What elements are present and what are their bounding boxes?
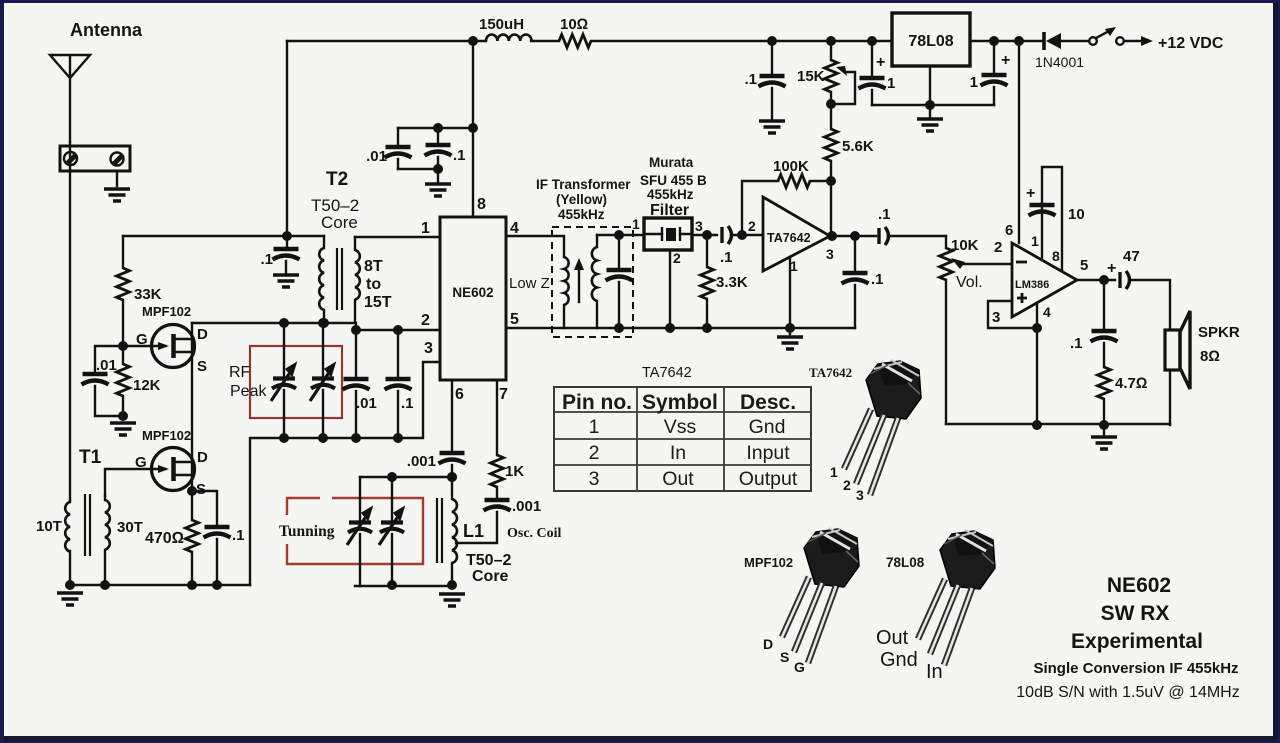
node junction at x287 [282, 231, 292, 241]
wire bypass bottom bus [398, 168, 438, 170]
wire antenna line down left side [69, 142, 71, 500]
resistor 100K [778, 175, 810, 188]
svg-text:L1: L1 [463, 521, 484, 541]
svg-text:10T: 10T [36, 518, 62, 535]
wire down to vol pot [945, 236, 947, 248]
ground bottom left [57, 593, 83, 605]
wire pin8 drop [472, 41, 474, 217]
node RF peak caps top [279, 318, 289, 328]
svg-text:6: 6 [455, 386, 464, 403]
svg-text:3: 3 [826, 246, 834, 262]
resistor 5.6K [825, 129, 838, 161]
svg-text:Symbol: Symbol [642, 391, 718, 414]
wire Q2 gate to T1 [105, 469, 165, 496]
capacitor .1 at Q2 source [192, 491, 217, 526]
node 12K bottom [118, 411, 128, 421]
svg-text:+: + [1026, 185, 1035, 202]
capacitor .1 rail [771, 41, 773, 74]
svg-text:D: D [197, 326, 208, 343]
svg-text:MPF102: MPF102 [142, 428, 191, 443]
wire output to .1 cap [1103, 280, 1105, 329]
switch [1089, 37, 1097, 45]
wire rail drop x287 [286, 41, 288, 236]
svg-text:Vol.: Vol. [956, 274, 983, 291]
resistor R 33K [122, 236, 124, 268]
svg-text:10dB S/N with 1.5uV @ 14MHz: 10dB S/N with 1.5uV @ 14MHz [1016, 684, 1239, 701]
svg-text:5: 5 [1080, 257, 1088, 274]
svg-text:3.3K: 3.3K [716, 274, 748, 291]
filter element [644, 233, 692, 235]
svg-text:SFU 455 B: SFU 455 B [640, 173, 707, 188]
svg-text:Experimental: Experimental [1071, 630, 1203, 653]
terminal block [60, 146, 130, 171]
svg-text:Desc.: Desc. [740, 391, 796, 414]
transformer T1 10T winding [69, 500, 71, 502]
svg-text:+: + [876, 54, 885, 71]
node rail x473 [468, 36, 478, 46]
wire pin4 to primary [506, 236, 564, 257]
wire Q1 drain line y=323 [192, 323, 440, 330]
svg-text:Output: Output [739, 468, 798, 490]
svg-text:Input: Input [746, 442, 790, 464]
svg-text:TA7642: TA7642 [809, 365, 852, 380]
node L1 bottom / ground [447, 580, 457, 590]
IC NE602 box [440, 217, 506, 380]
potentiometer 15K [830, 41, 832, 60]
svg-text:3: 3 [695, 218, 703, 234]
svg-text:4: 4 [1043, 304, 1051, 320]
svg-text:Peak: Peak [230, 383, 267, 400]
transformer T1 30T winding [104, 496, 106, 500]
svg-text:2: 2 [994, 239, 1002, 256]
regulator 78L08 box [892, 13, 970, 66]
svg-text:2: 2 [748, 218, 756, 234]
wire pin3 bottom line [250, 362, 440, 585]
svg-text:NE602: NE602 [452, 285, 493, 300]
svg-text:T50–2: T50–2 [466, 552, 511, 569]
svg-text:.001: .001 [512, 498, 541, 515]
svg-text:2: 2 [673, 250, 681, 266]
svg-text:.1: .1 [744, 71, 757, 88]
wire filter pin2 down [669, 250, 671, 328]
transformer T1 core [85, 494, 90, 556]
svg-text:Low Z: Low Z [509, 275, 550, 292]
svg-text:S: S [780, 649, 789, 665]
filter box [644, 218, 692, 250]
capacitor .01 below pin2 line [355, 330, 357, 377]
svg-text:G: G [794, 659, 805, 675]
node gate Q1 [118, 341, 128, 351]
wire T2 secondary to NE602 pin1 [355, 236, 440, 238]
wire tuning caps top line [360, 476, 452, 478]
wire 33K top line to T2 [123, 235, 324, 237]
capacitor .01 bypass [397, 128, 399, 145]
wire filter out [692, 234, 717, 236]
svg-text:.1: .1 [1070, 335, 1083, 352]
node T1 bottom [65, 580, 75, 590]
ground below 12K [110, 423, 136, 435]
svg-text:D: D [197, 449, 208, 466]
svg-text:to: to [366, 276, 381, 293]
amplifier LM386 triangle [1012, 243, 1077, 317]
L1 core [437, 498, 442, 563]
svg-text:150uH: 150uH [479, 16, 524, 33]
svg-text:Single Conversion IF 455kHz: Single Conversion IF 455kHz [1033, 660, 1238, 677]
transformer T2 left winding [323, 236, 325, 248]
svg-text:SPKR: SPKR [1198, 324, 1240, 341]
svg-text:2: 2 [843, 477, 851, 493]
svg-text:5: 5 [510, 311, 519, 328]
svg-text:.01: .01 [96, 357, 117, 374]
variable capacitor tuning 1 [359, 477, 361, 520]
transistor photo MPF102 [782, 528, 859, 663]
svg-text:78L08: 78L08 [886, 555, 925, 570]
svg-text:10K: 10K [951, 237, 979, 254]
svg-text:7: 7 [499, 386, 508, 403]
svg-text:In: In [670, 442, 686, 464]
svg-text:Out: Out [662, 468, 694, 490]
potentiometer 10K [940, 248, 953, 280]
svg-text:Vss: Vss [664, 416, 697, 438]
ground below terminal [104, 189, 130, 201]
variable capacitor RF peak 2 [322, 323, 324, 376]
svg-text:Out: Out [876, 627, 909, 649]
svg-text:3: 3 [856, 487, 864, 503]
svg-text:2: 2 [589, 442, 600, 464]
diode 1N4001 [1042, 32, 1046, 50]
wire feedback loop [742, 181, 778, 235]
resistor 4.7 ohm [1098, 367, 1111, 399]
svg-text:1: 1 [589, 416, 600, 438]
wire to +12VDC arrow [1125, 40, 1146, 42]
svg-text:S: S [197, 358, 207, 375]
pins 1,8 loop + cap 10uF [1042, 167, 1062, 271]
wire LM386 pin6 drop [1018, 41, 1020, 243]
svg-text:470Ω: 470Ω [145, 530, 184, 547]
svg-text:Tunning: Tunning [279, 523, 335, 540]
capacitor .1 bypass [437, 128, 439, 143]
svg-text:Murata: Murata [649, 155, 694, 170]
capacitor 1uF output [993, 41, 995, 73]
svg-text:1: 1 [421, 220, 430, 237]
node rail x1019 [1014, 36, 1024, 46]
capacitor .01 branch [95, 346, 123, 372]
svg-text:(Yellow): (Yellow) [556, 192, 607, 207]
svg-text:NE602: NE602 [1107, 574, 1171, 597]
svg-text:1N4001: 1N4001 [1035, 54, 1084, 70]
svg-text:.1: .1 [720, 249, 733, 266]
wire bottom rail LM386 [946, 423, 1170, 425]
svg-text:10: 10 [1068, 206, 1085, 223]
IF arrow [578, 265, 580, 302]
wire caps ground bus [872, 104, 994, 106]
svg-text:RF: RF [229, 364, 251, 381]
transformer T2 right winding 8T-15T [354, 237, 356, 250]
svg-text:8T: 8T [364, 258, 383, 275]
svg-text:+12 VDC: +12 VDC [1158, 35, 1224, 52]
transistor photo TA7642 [844, 360, 921, 495]
svg-text:1: 1 [1031, 233, 1039, 249]
svg-text:1: 1 [970, 74, 978, 91]
svg-text:T1: T1 [79, 447, 102, 468]
svg-text:.1: .1 [871, 271, 884, 288]
svg-text:15T: 15T [364, 294, 392, 311]
svg-text:.01: .01 [366, 148, 387, 165]
svg-text:1: 1 [830, 464, 838, 480]
svg-text:4: 4 [510, 220, 519, 237]
svg-text:G: G [136, 331, 148, 348]
svg-text:TA7642: TA7642 [642, 365, 692, 381]
wire rail middle [591, 40, 892, 42]
svg-text:.1: .1 [232, 527, 245, 544]
resistor 3.3K [706, 235, 708, 267]
svg-text:D: D [763, 636, 773, 652]
svg-text:Pin no.: Pin no. [562, 391, 632, 414]
wire long vertical drain-source line [191, 323, 193, 585]
10K wiper arrow [963, 263, 1012, 265]
amplifier TA7642 triangle [763, 197, 830, 271]
wire between L and R [531, 40, 559, 42]
wire TA7642 pin1 to gnd [789, 257, 791, 328]
node 3.3K top [702, 230, 712, 240]
node rail x872 [867, 36, 877, 46]
svg-text:S: S [196, 481, 206, 498]
wire 78L08 gnd pin [929, 66, 931, 105]
svg-text:100K: 100K [773, 158, 809, 175]
speaker [1165, 330, 1180, 370]
tunning red box [287, 498, 423, 564]
svg-text:47: 47 [1123, 248, 1140, 265]
svg-text:15K: 15K [797, 68, 825, 85]
capacitor .1 coupling to TA7642 [722, 226, 732, 244]
svg-text:.1: .1 [260, 251, 273, 268]
ground bypass [425, 184, 451, 196]
svg-text:In: In [926, 661, 943, 683]
capacitor .1 coupling to vol [879, 227, 889, 245]
transformer T2 core [337, 248, 342, 310]
svg-text:3: 3 [589, 468, 600, 490]
svg-text:8: 8 [477, 196, 486, 213]
pin3 box [988, 301, 1037, 328]
resistor 1K [491, 455, 504, 487]
variable capacitor tuning 2 [391, 477, 393, 520]
svg-text:MPF102: MPF102 [744, 555, 793, 570]
wire secondary top to filter [597, 234, 644, 236]
svg-text:Antenna: Antenna [70, 20, 143, 40]
capacitor .1 shunt at output [854, 236, 856, 271]
svg-text:8Ω: 8Ω [1200, 348, 1220, 365]
svg-text:5.6K: 5.6K [842, 138, 874, 155]
svg-text:TA7642: TA7642 [767, 231, 811, 245]
capacitor .1 below pin2 line [397, 330, 399, 377]
capacitor .001 pin7 [484, 500, 511, 511]
svg-text:4.7Ω: 4.7Ω [1115, 375, 1147, 392]
svg-text:Core: Core [321, 213, 358, 232]
node rail x831 [826, 36, 836, 46]
svg-text:1: 1 [887, 75, 895, 92]
svg-text:1: 1 [632, 216, 640, 232]
svg-text:T2: T2 [326, 169, 348, 190]
svg-text:1K: 1K [505, 463, 524, 480]
node feedback tap [737, 230, 747, 240]
svg-text:LM386: LM386 [1015, 279, 1049, 291]
wire terminal right to ground [116, 171, 118, 186]
15K wiper [831, 72, 855, 104]
node rail x994 [989, 36, 999, 46]
svg-text:10Ω: 10Ω [560, 16, 588, 33]
terminal screw left [64, 152, 77, 165]
svg-text:+: + [1001, 52, 1010, 69]
node rail x772 [767, 36, 777, 46]
svg-text:8: 8 [1052, 248, 1060, 264]
svg-text:IF Transformer: IF Transformer [536, 177, 631, 192]
resistor 470 ohm [187, 486, 197, 496]
svg-text:30T: 30T [117, 519, 143, 536]
svg-text:12K: 12K [133, 377, 161, 394]
wire top rail left [287, 40, 486, 42]
terminal screw right [111, 153, 124, 166]
capacitor .1 at T2 top [286, 236, 288, 249]
svg-text:Osc. Coil: Osc. Coil [507, 526, 562, 541]
wire output node [830, 235, 876, 237]
svg-text:.01: .01 [356, 395, 377, 412]
svg-text:3: 3 [424, 340, 433, 357]
bypass caps bus [398, 127, 473, 129]
capacitor .001 pin6 [439, 453, 466, 464]
svg-text:455kHz: 455kHz [558, 207, 605, 222]
svg-text:SW RX: SW RX [1101, 602, 1170, 625]
wire bottom ground rail [70, 585, 452, 586]
resistor 12K [122, 346, 124, 364]
wire rail right of 78L08 [970, 40, 1043, 42]
ground LM386 [1103, 425, 1105, 434]
svg-text:3: 3 [992, 309, 1000, 326]
inductor L1 [451, 477, 453, 499]
IF secondary winding [596, 235, 598, 247]
svg-text:33K: 33K [134, 286, 162, 303]
dashed box [552, 227, 633, 337]
wire pin5 ground line [506, 327, 855, 329]
regulator photo 78L08 [918, 530, 995, 665]
svg-text:+: + [1107, 260, 1116, 277]
wire output [1077, 279, 1115, 281]
capacitor IF tank [618, 235, 620, 268]
capacitor 47uF [1120, 271, 1130, 289]
svg-text:Gnd: Gnd [880, 649, 918, 671]
variable capacitor RF peak 1 [283, 323, 285, 376]
svg-text:6: 6 [1005, 222, 1013, 239]
wire pin4 down [1036, 303, 1038, 425]
capacitor 1uF input [871, 41, 873, 76]
wire pin6 down [451, 380, 453, 450]
svg-text:.001: .001 [407, 453, 436, 470]
svg-text:MPF102: MPF102 [142, 304, 191, 319]
svg-text:.1: .1 [878, 206, 891, 223]
svg-text:455kHz: 455kHz [647, 187, 694, 202]
svg-text:.1: .1 [401, 395, 414, 412]
RF peak red box [250, 346, 342, 418]
svg-text:2: 2 [421, 312, 430, 329]
svg-text:.1: .1 [453, 147, 466, 164]
IF primary winding [564, 257, 569, 305]
svg-text:78L08: 78L08 [908, 33, 953, 50]
wire pin7 chain [496, 380, 498, 455]
svg-text:Core: Core [472, 568, 509, 585]
node dots on pin3 line [279, 433, 289, 443]
svg-text:Gnd: Gnd [749, 416, 786, 438]
antenna symbol [50, 55, 90, 142]
